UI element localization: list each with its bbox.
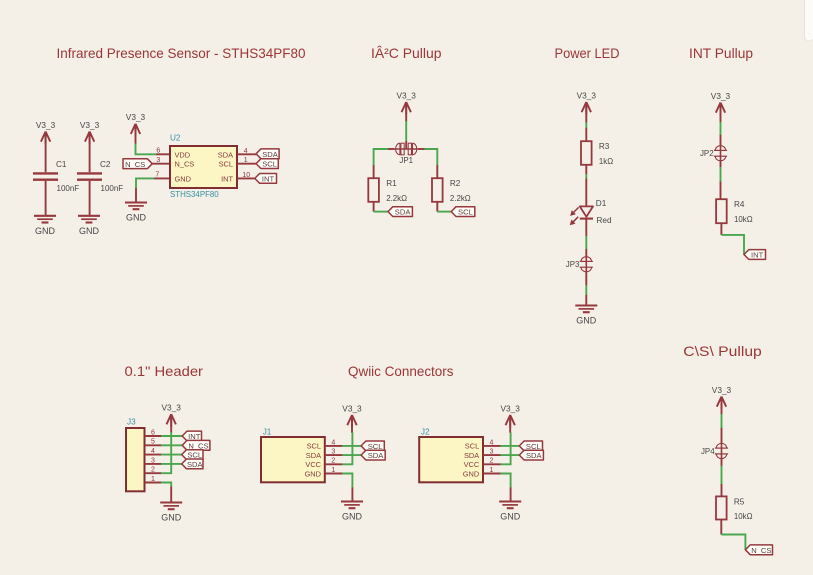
svg-text:SCL: SCL (262, 160, 277, 169)
svg-text:V3_3: V3_3 (397, 90, 417, 100)
net flag SCL (R2 SCL) (451, 207, 475, 217)
wire R1 bottom pin (373, 202, 375, 212)
svg-text:V3_3: V3_3 (577, 90, 597, 100)
wire V3_3 to C2 (89, 132, 91, 173)
net flag N_CS (U2 N_CS) (123, 159, 152, 169)
U2 pin number 4 (244, 148, 248, 155)
svg-text:SCL: SCL (458, 208, 473, 217)
J3 pin number 2 (151, 467, 155, 474)
wire JP1 to R1 (374, 149, 388, 166)
wire R2 top pin (436, 165, 438, 178)
wire JP2 top pin (720, 135, 722, 147)
op-amp U1 substitute: IC U2 STHS34PF80 (170, 134, 237, 199)
wire R2 to SCL (437, 211, 451, 213)
wire JP1 top pin (405, 141, 407, 149)
J1 pin 3 stub (325, 454, 343, 456)
wire J2 SCL wire (500, 445, 519, 447)
J1 pin 2 stub (325, 463, 343, 465)
solder jumper JP4 (701, 443, 728, 458)
svg-text:4: 4 (151, 448, 155, 455)
U2 pin number 6 (156, 148, 160, 155)
J1 pin number 4 (331, 439, 335, 446)
ground symbol (J3) (160, 503, 182, 523)
wire V3_3 vertical (J2) (500, 432, 510, 464)
svg-text:GND: GND (342, 512, 363, 522)
U2 pin number 10 (242, 172, 250, 179)
svg-text:J3: J3 (127, 417, 136, 426)
svg-text:7: 7 (155, 172, 159, 179)
svg-text:VDD: VDD (175, 150, 191, 159)
net flag SDA (J2 SDA) (519, 450, 543, 460)
wire V3_3 pin stub (U2) (135, 124, 137, 144)
svg-text:SCL: SCL (465, 442, 479, 451)
svg-text:J1: J1 (263, 428, 272, 437)
J3 pin 4 stub (145, 454, 162, 456)
wire V3_3 to U2 VDD (136, 144, 157, 155)
resistor R3 1kΩ (581, 141, 613, 166)
wire V3_3 to R3 (585, 122, 587, 128)
svg-text:R5: R5 (734, 497, 745, 506)
wire V3_3 pin stub (JP1) (405, 102, 407, 122)
ground symbol (power LED) (575, 306, 597, 326)
svg-text:GND: GND (126, 213, 147, 223)
svg-text:JP3: JP3 (566, 260, 580, 269)
wire R3 top pin (585, 128, 587, 141)
svg-text:1: 1 (151, 476, 155, 483)
power flag V3_3 (J3) (162, 403, 182, 427)
svg-text:V3_3: V3_3 (162, 403, 182, 413)
svg-text:SDA: SDA (187, 460, 204, 469)
svg-text:V3_3: V3_3 (342, 403, 362, 413)
svg-text:3: 3 (490, 449, 494, 456)
wire GND pin stub (U2) (135, 188, 137, 202)
svg-text:4: 4 (331, 439, 335, 446)
wire JP4 to R5 (721, 466, 723, 485)
svg-text:VCC: VCC (305, 460, 321, 469)
svg-text:C1: C1 (56, 160, 67, 169)
svg-text:1: 1 (331, 467, 335, 474)
svg-text:SDA: SDA (464, 451, 479, 460)
wire J3 pin 6 to INT (161, 435, 182, 437)
wire V3_3 to JP4 (721, 414, 723, 428)
wire V3_3 vertical (J1) (342, 432, 352, 464)
section title: C\S\ Pullup (683, 343, 762, 359)
svg-text:Qwiic Connectors: Qwiic Connectors (348, 363, 454, 379)
power flag V3_3 (R3) (577, 90, 597, 114)
wire JP2 bottom pin (720, 160, 722, 167)
svg-text:STHS34PF80: STHS34PF80 (170, 190, 219, 199)
svg-text:1: 1 (490, 467, 494, 474)
svg-text:VCC: VCC (464, 460, 480, 469)
wire D1 anode pin (585, 179, 587, 207)
wire U2 pin 1 stub (237, 163, 256, 165)
J3 pin 2 stub (145, 472, 162, 474)
wire V3_3 pin stub (J3) (170, 414, 172, 432)
svg-text:Infrared Presence Sensor - STH: Infrared Presence Sensor - STHS34PF80 (57, 45, 306, 61)
svg-text:SDA: SDA (395, 208, 412, 217)
net flag INT (R4 INT) (744, 250, 766, 260)
svg-text:N_CS: N_CS (175, 160, 195, 169)
ground symbol (C2) (78, 216, 100, 236)
wire JP3 top pin (585, 249, 587, 258)
connector J3 0.1in header (126, 417, 145, 491)
wire JP1 to R2 (424, 149, 437, 166)
svg-text:1kΩ: 1kΩ (599, 157, 613, 166)
wire R3 bottom pin (585, 165, 587, 175)
svg-text:R4: R4 (734, 200, 745, 209)
ground symbol (J2) (499, 502, 521, 522)
U2 pin number 7 (155, 172, 159, 179)
wire R1 to SDA (374, 211, 388, 213)
wire GND pin stub (J1) (351, 488, 353, 502)
section title: Power LED (555, 45, 620, 61)
net flag INT (J3 INT) (182, 431, 201, 441)
capacitor C2 100nF (77, 160, 123, 193)
svg-text:INT: INT (221, 174, 233, 183)
wire V3_3 to C1 (45, 132, 47, 173)
wire J3 pin 1 to GND (161, 483, 171, 488)
svg-text:GND: GND (463, 469, 479, 478)
svg-text:GND: GND (175, 174, 191, 183)
wire GND pin stub (LED) (585, 295, 587, 305)
resistor R1 2.2kΩ (368, 178, 407, 203)
J3 pin 5 stub (145, 444, 162, 446)
wire C2 to GND (89, 181, 91, 215)
net flag N_CS (R5 N_CS) (745, 545, 772, 555)
svg-text:6: 6 (151, 429, 155, 436)
svg-text:6: 6 (156, 148, 160, 155)
J2 pin number 2 (490, 458, 494, 465)
svg-text:5: 5 (151, 439, 155, 446)
wire R1 top pin (373, 165, 375, 178)
U2 pin number 1 (244, 157, 248, 164)
wire J1 SCL wire (342, 445, 361, 447)
J3 pin 6 stub (145, 435, 162, 437)
wire V3_3 pin stub (JP2) (720, 103, 722, 123)
svg-text:C2: C2 (100, 160, 111, 169)
power flag V3_3 (C1) (36, 120, 56, 144)
ground symbol (U2) (125, 203, 147, 223)
svg-text:2: 2 (151, 467, 155, 474)
power flag V3_3 (JP2) (711, 91, 731, 115)
svg-text:SDA: SDA (368, 451, 385, 460)
wire J2 SDA wire (500, 454, 519, 456)
svg-text:SDA: SDA (218, 150, 233, 159)
svg-text:D1: D1 (596, 199, 607, 208)
wire GND pin stub (J3) (170, 487, 172, 502)
svg-text:V3_3: V3_3 (80, 120, 100, 130)
J3 pin number 3 (151, 457, 155, 464)
svg-text:GND: GND (305, 469, 321, 478)
svg-text:V3_3: V3_3 (711, 91, 731, 101)
wire R5 bottom pin (720, 520, 722, 535)
svg-text:Red: Red (597, 216, 612, 225)
net flag SDA (U2 SDA) (256, 149, 279, 159)
svg-text:V3_3: V3_3 (501, 403, 521, 413)
wire JP4 bottom pin (721, 458, 723, 466)
net flag SDA (R1 SDA) (388, 207, 412, 217)
wire V3_3 pin stub (R3) (585, 102, 587, 123)
svg-text:V3_3: V3_3 (36, 120, 56, 130)
J1 pin 4 stub (325, 445, 343, 447)
wire D1 cathode pin (585, 219, 587, 237)
wire V3_3 to J3 pin 2 (161, 432, 171, 473)
svg-text:GND: GND (79, 226, 100, 236)
svg-text:3: 3 (331, 449, 335, 456)
wire J1 SDA wire (342, 454, 361, 456)
resistor R5 10kΩ (716, 496, 753, 521)
wire R4 top pin (720, 182, 722, 200)
svg-text:R1: R1 (386, 179, 397, 188)
J3 pin number 5 (151, 439, 155, 446)
J2 pin number 3 (490, 449, 494, 456)
wire J3 pin 5 to N_CS (161, 444, 182, 446)
J2 pin 2 stub (483, 463, 501, 465)
wire U2 pin 6 stub (156, 153, 170, 155)
svg-text:INT: INT (751, 251, 764, 260)
svg-text:GND: GND (161, 513, 182, 523)
connector J1 Qwiic (261, 428, 325, 483)
svg-text:2.2kΩ: 2.2kΩ (386, 194, 407, 203)
section title: Infrared Presence Sensor - STHS34PF80 (57, 45, 306, 61)
wire U2 pin 4 stub (237, 153, 256, 155)
svg-text:3: 3 (151, 457, 155, 464)
ground symbol (J1) (341, 502, 363, 522)
svg-text:IÂ²C Pullup: IÂ²C Pullup (371, 45, 442, 61)
svg-text:2: 2 (331, 458, 335, 465)
svg-text:JP2: JP2 (700, 149, 714, 158)
wire JP1 right pin (418, 148, 425, 150)
net flag SCL (J1 SCL) (361, 441, 384, 451)
svg-text:GND: GND (35, 226, 56, 236)
power flag V3_3 (JP1) (397, 90, 417, 114)
J3 pin number 6 (151, 429, 155, 436)
wire JP3 bottom pin (585, 271, 587, 285)
browser scrollbar thumb (805, 0, 813, 41)
svg-text:SDA: SDA (526, 451, 543, 460)
svg-text:10kΩ: 10kΩ (734, 215, 753, 224)
svg-text:SCL: SCL (219, 160, 233, 169)
net flag SDA (J3 SDA) (182, 459, 204, 469)
svg-text:100nF: 100nF (101, 184, 124, 193)
J1 pin number 1 (331, 467, 335, 474)
power flag V3_3 (U2 VDD) (126, 112, 146, 136)
power flag V3_3 (JP4) (712, 385, 732, 409)
wire V3_3 to JP2 (720, 122, 722, 135)
solder jumper JP1 (395, 143, 418, 165)
wire JP3 to GND (585, 285, 587, 295)
svg-text:2.2kΩ: 2.2kΩ (450, 194, 471, 203)
net flag SDA (J1 SDA) (361, 450, 385, 460)
solder jumper JP3 (566, 257, 593, 272)
wire V3_3 pin stub (J2) (509, 415, 511, 433)
LED D1 Red (570, 199, 612, 225)
section title: IÂ²C Pullup (371, 45, 442, 61)
J3 pin 3 stub (145, 463, 162, 465)
svg-text:J2: J2 (421, 428, 430, 437)
J3 pin number 4 (151, 448, 155, 455)
wire R5 top pin (721, 484, 723, 497)
wire V3_3 pin stub (J1) (351, 415, 353, 433)
section title: 0.1" Header (125, 363, 204, 379)
resistor R2 2.2kΩ (432, 178, 471, 203)
wire R2 bottom pin (436, 202, 438, 212)
J2 pin number 4 (490, 439, 494, 446)
svg-text:INT Pullup: INT Pullup (689, 45, 753, 61)
net flag SCL (U2 SCL) (256, 159, 278, 169)
wire D1 to JP3 (585, 236, 587, 250)
J2 pin 4 stub (483, 445, 501, 447)
svg-text:C\S\ Pullup: C\S\ Pullup (683, 343, 762, 359)
connector J2 Qwiic (419, 428, 483, 483)
svg-text:JP4: JP4 (701, 447, 715, 456)
wire J3 pin 3 to SDA (161, 463, 182, 465)
wire J1 GND wire (342, 474, 352, 488)
net flag INT (U2 INT) (255, 174, 277, 184)
power flag V3_3 (J2) (501, 403, 521, 427)
power flag V3_3 (C2) (80, 120, 100, 144)
U2 pin number 3 (156, 157, 160, 164)
svg-text:V3_3: V3_3 (126, 112, 146, 122)
svg-text:R2: R2 (450, 179, 461, 188)
svg-text:R3: R3 (599, 142, 610, 151)
svg-text:SDA: SDA (306, 451, 321, 460)
wire JP4 top pin (721, 428, 723, 444)
wire C1 to GND (45, 181, 47, 215)
svg-text:3: 3 (156, 157, 160, 164)
svg-text:SDA: SDA (262, 150, 279, 159)
J1 pin number 3 (331, 449, 335, 456)
wire V3_3 to JP1 (405, 121, 407, 142)
power flag V3_3 (J1) (342, 403, 362, 427)
J1 pin 1 stub (325, 473, 343, 475)
net flag SCL (J2 SCL) (519, 441, 542, 451)
svg-text:U2: U2 (170, 134, 181, 143)
wire V3_3 pin stub (JP4) (721, 397, 723, 415)
wire GND pin stub (J2) (510, 488, 512, 502)
svg-text:0.1" Header: 0.1" Header (125, 363, 204, 379)
svg-text:SCL: SCL (307, 442, 321, 451)
J1 pin number 2 (331, 458, 335, 465)
wire R5 to N_CS (721, 535, 745, 550)
solder jumper JP2 (700, 146, 727, 161)
J2 pin 1 stub (483, 473, 501, 475)
wire U2 GND net (136, 178, 154, 188)
J3 pin 1 stub (145, 482, 162, 484)
svg-text:10kΩ: 10kΩ (734, 512, 753, 521)
svg-text:JP1: JP1 (399, 156, 413, 165)
wire U2 pin 7 stub (154, 177, 170, 179)
J2 pin 3 stub (483, 454, 501, 456)
wire J3 pin 4 to SCL (161, 454, 182, 456)
svg-text:4: 4 (490, 439, 494, 446)
net flag SCL (J3 SCL) (182, 450, 203, 460)
svg-text:INT: INT (262, 175, 275, 184)
svg-text:2: 2 (490, 458, 494, 465)
wire JP1 left pin (388, 148, 395, 150)
J2 pin number 1 (490, 467, 494, 474)
wire R3 to D1 (585, 174, 587, 179)
svg-text:Power LED: Power LED (555, 45, 620, 61)
wire R4 bottom pin (720, 223, 722, 235)
svg-text:N_CS: N_CS (125, 160, 145, 169)
wire R4 to INT (721, 235, 744, 255)
section title: INT Pullup (689, 45, 753, 61)
capacitor C1 100nF (33, 160, 79, 193)
wire N_CS to U2 pin 3 (152, 163, 170, 165)
wire JP2 to R4 (720, 167, 722, 182)
wire U2 pin 10 stub (237, 177, 255, 179)
svg-text:V3_3: V3_3 (712, 385, 732, 395)
section title: Qwiic Connectors (348, 363, 454, 379)
wire J2 GND wire (500, 474, 510, 488)
ground symbol (C1) (34, 216, 56, 236)
svg-text:N_CS: N_CS (751, 546, 771, 555)
svg-text:GND: GND (500, 512, 521, 522)
svg-text:GND: GND (576, 316, 597, 326)
J3 pin number 1 (151, 476, 155, 483)
resistor R4 10kΩ (716, 199, 753, 224)
svg-text:100nF: 100nF (57, 184, 80, 193)
net flag N_CS (J3 N_CS) (182, 440, 210, 450)
